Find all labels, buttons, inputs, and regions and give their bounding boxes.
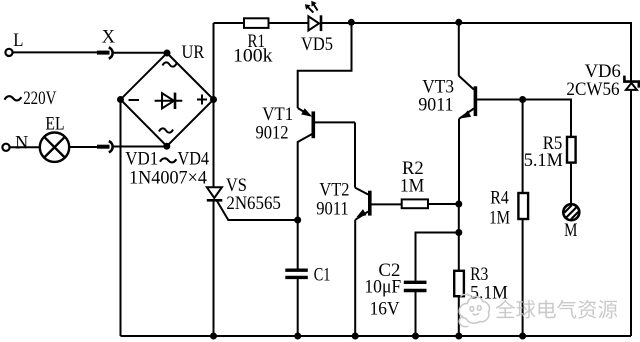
node VT3 collector top — [455, 19, 462, 26]
transistor VT2 base lead — [372, 203, 402, 205]
thyristor VS triangle — [207, 187, 222, 198]
svg-text:VD4: VD4 — [178, 149, 210, 170]
wire VS down to ground — [213, 200, 215, 336]
svg-text:9011: 9011 — [418, 94, 453, 115]
resistor R2 — [402, 199, 428, 208]
svg-text:1M: 1M — [400, 176, 424, 197]
transistor VT2 collector diagonal — [355, 188, 368, 195]
LED VD5 arrow 1 — [307, 6, 314, 13]
terminal N — [2, 144, 9, 151]
LED VD5 arrow 2 — [312, 3, 317, 11]
resistor R5 — [567, 137, 576, 163]
resistor R1 — [244, 18, 269, 28]
wire C1 to ground — [297, 279, 299, 336]
svg-text:5.1M: 5.1M — [470, 282, 508, 303]
transistor VT1 base lead — [315, 121, 355, 123]
bridge ac mark top — [163, 62, 177, 66]
bridge diode bar — [174, 93, 177, 109]
wire VT3 emitter down — [458, 119, 460, 204]
bridge diode lead — [155, 100, 183, 102]
LED VD5 cathode bar — [320, 15, 323, 31]
wire top rail middle — [351, 22, 459, 24]
wire R1 to VD5 — [269, 22, 309, 24]
wire node to node — [458, 204, 460, 233]
node bridge top — [164, 50, 171, 57]
bridge plus sign — [197, 95, 207, 105]
watermark text 全球电气资源 — [496, 300, 618, 319]
svg-text:9012: 9012 — [256, 123, 289, 144]
svg-text:10μF: 10μF — [364, 277, 401, 298]
svg-text:L: L — [13, 30, 23, 51]
connector X upper socket arc — [109, 47, 113, 58]
wire base node to R4 — [522, 100, 524, 194]
svg-text:1M: 1M — [489, 207, 510, 228]
svg-text:100k: 100k — [233, 46, 273, 67]
resistor R3 — [454, 271, 464, 296]
svg-text:2CW56: 2CW56 — [566, 79, 619, 100]
wire L to plug — [13, 51, 98, 53]
capacitor C1 plates — [285, 269, 308, 272]
transistor VT1 collector diagonal — [298, 134, 313, 269]
node R2 out — [455, 201, 462, 208]
connector X lower socket arc — [109, 141, 113, 152]
wire plus vertex down to VS — [213, 100, 215, 188]
transistor VT2 emitter arrow — [356, 209, 366, 217]
wire plug to bridge top — [114, 52, 167, 54]
svg-text:X: X — [102, 27, 116, 48]
wire R2 to node — [428, 203, 459, 205]
terminal L — [5, 49, 12, 56]
svg-text:C1: C1 — [314, 265, 331, 286]
wire N to lamp — [10, 146, 40, 148]
bridge rectifier UR diamond — [121, 53, 214, 146]
transistor VT1 base bar — [311, 111, 315, 138]
bridge diode triangle — [162, 93, 174, 108]
zener diode VD6 triangle — [626, 83, 637, 90]
transistor VT2 base bar — [368, 191, 372, 216]
microphone M — [563, 204, 579, 220]
thyristor VS cathode bar — [207, 199, 223, 202]
wire C2 branch — [416, 233, 459, 281]
transistor VT3 collector diagonal — [459, 76, 474, 90]
wire lamp to plug — [69, 146, 98, 148]
capacitor C2 plates — [404, 281, 427, 284]
node VD5 out — [348, 19, 355, 26]
connector X lower plug pin — [97, 145, 110, 149]
wire plus vertex up to top rail — [213, 23, 215, 100]
LED VD5 triangle — [308, 16, 319, 30]
transistor VT3 emitter arrow — [461, 110, 471, 118]
node bridge left — [117, 96, 124, 103]
transistor VT1 emitter diagonal — [298, 108, 310, 116]
svg-text:M: M — [564, 220, 577, 241]
label ~220V — [5, 96, 22, 100]
watermark logo — [459, 294, 489, 327]
transistor VT3 emitter diagonal — [459, 109, 474, 119]
svg-text:5.1M: 5.1M — [524, 150, 563, 171]
wire R4 to ground — [522, 219, 524, 336]
node VS gate junction — [294, 217, 301, 224]
svg-text:VD1: VD1 — [125, 149, 158, 170]
node bridge right — [210, 96, 217, 103]
resistor R4 — [518, 193, 528, 219]
wire top rail right — [459, 23, 631, 336]
svg-text:220V: 220V — [23, 88, 57, 109]
transistor VT2 emitter diagonal — [355, 212, 368, 220]
wire R5 to microphone — [570, 163, 572, 205]
svg-text:2N6565: 2N6565 — [226, 193, 281, 214]
wire C2 to ground — [415, 292, 417, 336]
node C2 branch — [455, 229, 462, 236]
wire base node to R5 — [523, 100, 571, 137]
ground rail nodes — [210, 333, 217, 340]
svg-text:VD5: VD5 — [301, 34, 333, 55]
transistor VT1 emitter arrow — [301, 108, 312, 117]
wire VT1 base down to VT2 collector — [354, 122, 356, 187]
wire ground rail — [121, 335, 632, 337]
svg-text:VT2: VT2 — [319, 180, 349, 201]
svg-text:1N4007×4: 1N4007×4 — [129, 168, 207, 189]
svg-text:R4: R4 — [490, 188, 509, 209]
bridge minus sign — [129, 99, 140, 101]
svg-text:EL: EL — [45, 113, 64, 134]
wire VD5 to node — [322, 22, 351, 24]
wire VT2 emitter to ground — [354, 220, 356, 336]
wire node to R3 — [458, 233, 460, 271]
svg-text:N: N — [15, 133, 28, 154]
wire top rail left — [214, 22, 245, 24]
wire plug to bridge bottom — [114, 146, 167, 148]
thyristor VS gate — [217, 201, 298, 220]
svg-text:UR: UR — [182, 42, 205, 63]
bridge ac mark bottom — [159, 128, 173, 132]
wire bridge left down to ground rail — [120, 100, 122, 337]
connector X upper plug pin — [97, 51, 110, 55]
wire R3 to ground — [458, 296, 460, 336]
node VT3 base junction — [519, 96, 526, 103]
transistor VT3 base lead — [477, 99, 522, 101]
lamp EL — [40, 133, 69, 162]
wire VD5 node down and left to VT1 emitter — [298, 23, 352, 108]
node bridge bottom — [163, 143, 170, 150]
svg-text:16V: 16V — [370, 298, 400, 319]
transistor VT3 base bar — [474, 86, 478, 116]
svg-text:9011: 9011 — [316, 199, 349, 220]
zener diode VD6 bar — [624, 76, 638, 88]
wire VT3 collector — [458, 23, 460, 76]
